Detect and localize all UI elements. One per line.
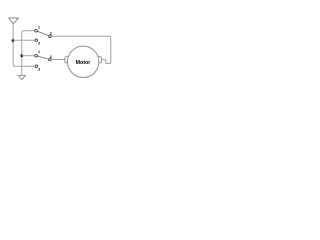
switch SW2 terminal 3 <box>35 65 38 68</box>
wire: inner vertical junction to SW2 terminal 1 <box>22 55 35 57</box>
wire: left bus junction to SW1 terminal 3 <box>13 39 35 41</box>
switch SW1 terminal 1 <box>35 29 38 32</box>
svg-text:3: 3 <box>38 67 40 71</box>
svg-text:3: 3 <box>38 42 40 46</box>
motor M1 right terminal <box>97 56 102 64</box>
antenna AE1 <box>9 18 19 24</box>
junction node on left bus (to SW1 terminal 3) <box>12 39 15 42</box>
wire: SW1 common to right side loop down to motor right terminal <box>51 36 111 63</box>
switch SW1 terminal 3 <box>35 39 38 42</box>
switch SW1 arm (1-2 closed) <box>37 31 49 36</box>
svg-text:1: 1 <box>38 26 40 30</box>
ground <box>18 75 25 79</box>
switch SW1 common terminal 2 <box>49 35 52 38</box>
motor M1 body <box>68 46 99 77</box>
motor M1 left terminal <box>65 56 70 64</box>
switch SW2 common terminal 2 <box>49 58 52 61</box>
switch SW2 terminal 1 <box>35 54 38 57</box>
junction node on inner vertical (to SW2 terminal 1) <box>20 54 23 57</box>
svg-text:2: 2 <box>50 31 52 35</box>
switch SW2 arm (1-2 closed) <box>37 56 48 59</box>
svg-text:Motor: Motor <box>76 60 91 66</box>
svg-text:2: 2 <box>50 55 52 59</box>
wire: antenna stem / left vertical bus down to bottom corner then right to SW2 terminal 3 <box>13 23 35 66</box>
wire: SW1 terminal 1 left then down inner vertical to ground <box>22 31 35 75</box>
wire: SW2 common to motor left terminal <box>51 59 65 61</box>
svg-text:1: 1 <box>38 50 40 54</box>
